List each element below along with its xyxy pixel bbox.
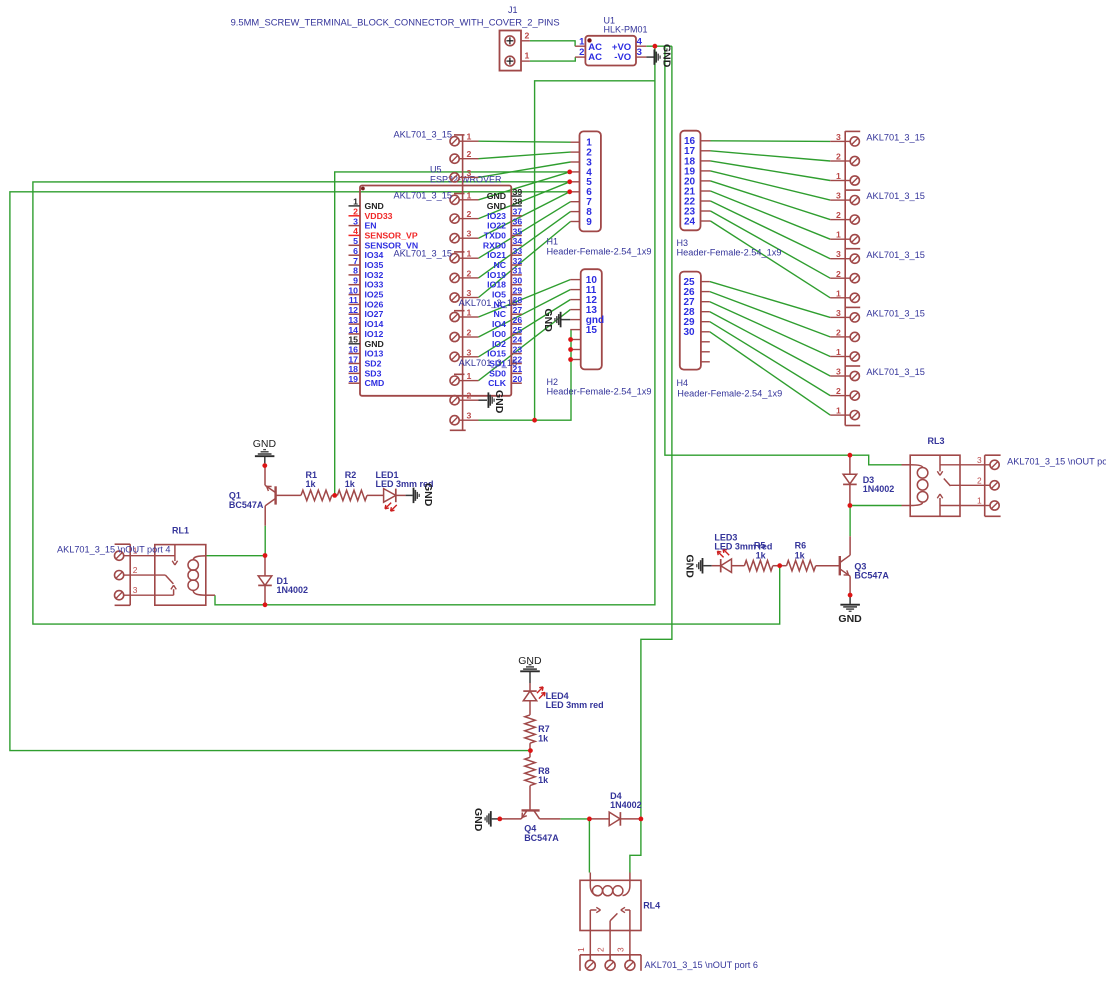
svg-text:AKL701_3_15: AKL701_3_15 <box>394 249 453 259</box>
svg-text:AKL701_3_15: AKL701_3_15 <box>459 298 517 308</box>
wire <box>479 310 571 381</box>
svg-text:9.5MM_SCREW_TERMINAL_BLOCK_CON: 9.5MM_SCREW_TERMINAL_BLOCK_CONNECTOR_WIT… <box>231 17 560 27</box>
transistor Q3 <box>816 536 890 595</box>
svg-text:15: 15 <box>586 325 598 336</box>
svg-text:AKL701_3_15: AKL701_3_15 <box>459 358 517 368</box>
connector AKL701 port6 <box>576 947 758 971</box>
led LED1 <box>367 470 434 511</box>
svg-text:14: 14 <box>348 325 358 335</box>
wire <box>588 819 590 873</box>
relay RL1 <box>130 525 215 605</box>
wire <box>849 506 851 537</box>
svg-text:GND: GND <box>365 201 384 211</box>
wire <box>479 300 571 357</box>
svg-text:18: 18 <box>348 364 358 374</box>
svg-text:1: 1 <box>467 249 472 259</box>
svg-text:12: 12 <box>348 305 358 315</box>
connector AKL701 port4 <box>57 544 171 605</box>
svg-text:2: 2 <box>467 328 472 338</box>
wire <box>711 221 831 298</box>
svg-text:2: 2 <box>836 210 841 220</box>
svg-text:2: 2 <box>977 475 982 485</box>
junction <box>567 170 572 175</box>
svg-text:J1: J1 <box>508 5 518 15</box>
wire <box>710 302 830 357</box>
svg-text:3: 3 <box>467 168 472 178</box>
svg-text:4: 4 <box>637 36 643 47</box>
svg-text:AKL701_3_15 \nOUT port 5: AKL701_3_15 \nOUT port 5 <box>1007 457 1106 467</box>
svg-text:2: 2 <box>353 207 358 217</box>
svg-text:EN: EN <box>365 221 377 231</box>
svg-text:5: 5 <box>353 236 358 246</box>
wire <box>479 182 570 219</box>
wire <box>711 191 831 239</box>
transistor Q4 <box>500 810 561 842</box>
svg-text:6: 6 <box>353 246 358 256</box>
svg-text:1: 1 <box>836 288 841 298</box>
svg-text:IO19: IO19 <box>487 270 506 280</box>
wire <box>479 152 571 159</box>
svg-text:RL3: RL3 <box>928 436 945 446</box>
svg-text:3: 3 <box>637 47 642 58</box>
svg-text:IO25: IO25 <box>365 290 384 300</box>
connector column AKL701_3_15 (right) <box>830 131 925 425</box>
svg-text:26: 26 <box>513 315 523 325</box>
svg-text:1: 1 <box>467 308 472 318</box>
relay RL3 <box>902 436 985 516</box>
relay RL4 <box>580 873 660 961</box>
wire <box>711 181 831 220</box>
svg-text:37: 37 <box>513 207 523 217</box>
svg-text:1: 1 <box>467 132 472 142</box>
svg-text:BC547A: BC547A <box>854 571 889 581</box>
svg-text:2: 2 <box>467 268 472 278</box>
junction <box>532 418 537 423</box>
svg-text:3: 3 <box>467 288 472 298</box>
wire <box>711 171 831 200</box>
svg-text:GND: GND <box>542 309 554 333</box>
wire <box>535 81 655 420</box>
svg-text:AC: AC <box>588 52 602 63</box>
svg-text:VDD33: VDD33 <box>365 211 393 221</box>
diode D1 <box>258 556 308 605</box>
wire <box>711 151 831 161</box>
ground <box>542 309 570 333</box>
resistor R6 <box>780 541 816 571</box>
wire <box>710 282 830 318</box>
svg-text:H4: H4 <box>677 378 689 388</box>
svg-text:8: 8 <box>353 266 358 276</box>
diode D4 <box>589 791 641 826</box>
svg-text:39: 39 <box>513 187 523 197</box>
junction <box>653 44 658 49</box>
svg-text:IO13: IO13 <box>365 349 384 359</box>
svg-text:1: 1 <box>579 36 585 47</box>
svg-text:1: 1 <box>576 947 586 952</box>
wire <box>479 172 570 200</box>
svg-text:IO33: IO33 <box>365 280 384 290</box>
ground <box>838 595 862 625</box>
svg-text:24: 24 <box>513 335 523 345</box>
svg-text:3: 3 <box>836 367 841 377</box>
svg-text:RL4: RL4 <box>643 900 660 910</box>
svg-text:R6: R6 <box>795 541 807 551</box>
svg-text:TXD0: TXD0 <box>484 231 506 241</box>
wire <box>215 46 655 605</box>
svg-text:NC: NC <box>493 260 506 270</box>
junction <box>568 337 573 342</box>
svg-text:IO0: IO0 <box>492 329 506 339</box>
svg-text:R5: R5 <box>754 541 766 551</box>
svg-text:30: 30 <box>684 327 696 338</box>
svg-text:RL1: RL1 <box>172 525 189 535</box>
ground <box>479 390 506 414</box>
svg-text:Header-Female-2.54_1x9: Header-Female-2.54_1x9 <box>677 389 782 399</box>
wire <box>479 202 571 259</box>
svg-text:2: 2 <box>133 565 138 575</box>
wire <box>560 818 589 820</box>
junction <box>848 453 853 458</box>
svg-text:11: 11 <box>349 295 358 305</box>
svg-text:NC: NC <box>493 309 506 319</box>
svg-text:3: 3 <box>836 191 841 201</box>
svg-text:GND: GND <box>487 201 506 211</box>
svg-text:17: 17 <box>348 354 358 364</box>
svg-text:H2: H2 <box>547 377 559 387</box>
wire <box>641 46 672 819</box>
svg-text:1: 1 <box>836 406 841 416</box>
svg-text:IO2: IO2 <box>492 339 506 349</box>
svg-text:9: 9 <box>353 276 358 286</box>
wire <box>479 192 570 238</box>
wire <box>646 45 672 47</box>
svg-text:GND: GND <box>422 483 434 507</box>
svg-text:1k: 1k <box>538 775 549 785</box>
svg-text:1k: 1k <box>345 479 356 489</box>
svg-text:GND: GND <box>472 808 484 832</box>
junction <box>848 503 853 508</box>
svg-text:29: 29 <box>513 285 523 295</box>
svg-text:AKL701_3_15 \nOUT port 6: AKL701_3_15 \nOUT port 6 <box>645 960 759 970</box>
svg-text:1k: 1k <box>306 479 317 489</box>
wire <box>479 141 571 142</box>
svg-text:GND: GND <box>493 390 505 414</box>
svg-text:31: 31 <box>513 266 523 276</box>
svg-text:25: 25 <box>513 325 523 335</box>
svg-text:16: 16 <box>348 344 358 354</box>
svg-text:Header-Female-2.54_1x9: Header-Female-2.54_1x9 <box>547 247 652 257</box>
svg-text:GND: GND <box>838 613 862 625</box>
ground <box>406 483 434 507</box>
wire <box>850 455 902 465</box>
svg-text:9: 9 <box>586 217 592 228</box>
svg-text:BC547A: BC547A <box>229 500 264 510</box>
svg-text:HLK-PM01: HLK-PM01 <box>604 25 648 35</box>
svg-text:2: 2 <box>467 149 472 159</box>
led LED4 <box>523 683 603 715</box>
svg-text:IO27: IO27 <box>365 309 384 319</box>
power module U1 <box>575 15 647 65</box>
junction <box>639 817 644 822</box>
svg-text:AKL701_3_15: AKL701_3_15 <box>866 309 925 319</box>
svg-text:1: 1 <box>836 347 841 357</box>
wire <box>630 819 641 873</box>
header H4 <box>677 272 783 399</box>
ground <box>646 44 672 68</box>
header H1 <box>547 131 652 256</box>
junction <box>777 563 782 568</box>
svg-text:3: 3 <box>836 308 841 318</box>
svg-text:GND: GND <box>487 191 506 201</box>
svg-text:36: 36 <box>513 216 523 226</box>
svg-text:IO34: IO34 <box>365 250 384 260</box>
svg-text:IO22: IO22 <box>487 221 506 231</box>
wire <box>479 280 571 317</box>
svg-text:1N4002: 1N4002 <box>277 585 309 595</box>
svg-text:LED 3mm red: LED 3mm red <box>546 700 604 710</box>
wire <box>710 292 830 337</box>
svg-text:1: 1 <box>836 171 841 181</box>
wire <box>10 192 570 751</box>
wire <box>206 555 265 557</box>
junction <box>262 463 267 468</box>
svg-text:33: 33 <box>513 246 523 256</box>
wire <box>479 162 571 177</box>
ground <box>683 555 712 579</box>
svg-text:AKL701_3_15: AKL701_3_15 <box>866 250 925 260</box>
junction <box>587 817 592 822</box>
ground <box>518 655 542 683</box>
wire <box>711 140 831 143</box>
resistor R7 <box>525 715 550 751</box>
wire <box>33 182 780 624</box>
svg-text:GND: GND <box>253 438 277 450</box>
wire <box>479 290 571 337</box>
connector AKL701 port5 <box>977 455 1106 517</box>
header H3 <box>677 131 782 258</box>
connector J1 <box>231 5 560 70</box>
junction <box>568 347 573 352</box>
wire <box>711 161 831 181</box>
svg-text:1k: 1k <box>538 733 549 743</box>
wire <box>710 322 830 396</box>
junction <box>567 179 572 184</box>
wire <box>711 211 831 278</box>
svg-text:38: 38 <box>513 197 523 207</box>
svg-text:AKL701_3_15: AKL701_3_15 <box>394 191 453 201</box>
resistor R5 <box>744 541 779 571</box>
wire <box>479 222 571 298</box>
junction <box>528 748 533 753</box>
svg-text:2: 2 <box>836 269 841 279</box>
svg-text:19: 19 <box>348 374 358 384</box>
svg-text:4: 4 <box>353 226 358 236</box>
svg-text:AKL701_3_15: AKL701_3_15 <box>394 129 453 139</box>
svg-text:3: 3 <box>467 411 472 421</box>
svg-text:1: 1 <box>836 230 841 240</box>
svg-text:3: 3 <box>615 947 625 952</box>
svg-text:IO32: IO32 <box>365 270 384 280</box>
svg-text:3: 3 <box>467 229 472 239</box>
svg-text:1: 1 <box>525 51 530 61</box>
junction <box>497 817 502 822</box>
svg-text:2: 2 <box>467 209 472 219</box>
svg-text:1: 1 <box>353 197 358 207</box>
junction <box>332 493 337 498</box>
svg-text:CLK: CLK <box>488 378 507 388</box>
svg-text:IO12: IO12 <box>365 329 384 339</box>
svg-text:GND: GND <box>660 44 672 68</box>
svg-text:1: 1 <box>467 190 472 200</box>
resistor R8 <box>525 751 550 811</box>
svg-text:H1: H1 <box>547 236 559 246</box>
svg-text:30: 30 <box>513 276 523 286</box>
svg-text:3: 3 <box>836 249 841 259</box>
svg-text:2: 2 <box>596 947 606 952</box>
wire <box>479 212 571 278</box>
svg-text:IO21: IO21 <box>487 250 506 260</box>
svg-text:CMD: CMD <box>365 378 385 388</box>
svg-text:AKL701_3_15: AKL701_3_15 <box>866 191 925 201</box>
svg-text:1k: 1k <box>756 550 767 560</box>
svg-text:24: 24 <box>684 216 696 227</box>
svg-text:13: 13 <box>348 315 358 325</box>
wire <box>479 330 572 421</box>
wire <box>335 172 570 496</box>
resistor R2 <box>335 470 367 500</box>
svg-text:H3: H3 <box>677 238 689 248</box>
svg-text:SENSOR_VP: SENSOR_VP <box>365 230 418 240</box>
svg-text:3: 3 <box>467 347 472 357</box>
ground <box>253 438 277 463</box>
svg-text:Header-Female-2.54_1x9: Header-Female-2.54_1x9 <box>677 248 782 258</box>
svg-text:1N4002: 1N4002 <box>863 484 895 494</box>
svg-text:GND: GND <box>365 339 384 349</box>
svg-text:U5: U5 <box>430 165 442 175</box>
wire <box>665 46 850 455</box>
svg-text:1k: 1k <box>795 550 806 560</box>
diode D3 <box>843 455 894 505</box>
svg-text:IO4: IO4 <box>492 319 506 329</box>
header H2 <box>547 269 652 397</box>
svg-text:20: 20 <box>513 374 523 384</box>
svg-text:1: 1 <box>977 496 982 506</box>
junction <box>848 593 853 598</box>
led LED3 <box>712 532 773 572</box>
svg-text:AKL701_3_15 \nOUT port 4: AKL701_3_15 \nOUT port 4 <box>57 545 171 555</box>
svg-text:AKL701_3_15: AKL701_3_15 <box>866 133 925 143</box>
svg-text:Header-Female-2.54_1x9: Header-Female-2.54_1x9 <box>547 387 652 397</box>
svg-text:2: 2 <box>836 327 841 337</box>
svg-text:15: 15 <box>348 335 358 345</box>
svg-text:3: 3 <box>133 585 138 595</box>
wire <box>850 505 902 507</box>
svg-text:7: 7 <box>353 256 358 266</box>
svg-text:SD0: SD0 <box>489 368 506 378</box>
wire <box>530 41 575 46</box>
svg-text:2: 2 <box>467 391 472 401</box>
svg-text:IO18: IO18 <box>487 280 506 290</box>
junction <box>568 357 573 362</box>
svg-text:10: 10 <box>348 285 358 295</box>
svg-text:SD2: SD2 <box>365 359 382 369</box>
svg-text:3: 3 <box>836 132 841 142</box>
wire <box>710 312 830 376</box>
svg-text:2: 2 <box>836 152 841 162</box>
svg-text:IO35: IO35 <box>365 260 384 270</box>
svg-text:32: 32 <box>513 256 523 266</box>
svg-text:IO26: IO26 <box>365 299 384 309</box>
ground <box>472 808 500 832</box>
connector column AKL701_3_15 (middle) <box>394 129 518 430</box>
svg-text:23: 23 <box>513 344 523 354</box>
svg-text:34: 34 <box>513 236 523 246</box>
resistor R1 <box>301 470 335 500</box>
svg-text:35: 35 <box>513 226 523 236</box>
svg-text:IO23: IO23 <box>487 211 506 221</box>
svg-text:2: 2 <box>525 30 530 40</box>
svg-text:-VO: -VO <box>614 52 631 63</box>
svg-text:2: 2 <box>579 47 584 58</box>
svg-text:GND: GND <box>683 555 695 579</box>
svg-text:1N4002: 1N4002 <box>610 800 642 810</box>
svg-text:RXD0: RXD0 <box>483 240 506 250</box>
junction <box>567 189 572 194</box>
junction <box>263 553 268 558</box>
svg-text:IO15: IO15 <box>487 349 506 359</box>
svg-text:IO14: IO14 <box>365 319 384 329</box>
ic U5 ESP32-WROVER <box>348 165 522 396</box>
wire <box>530 57 575 61</box>
svg-text:BC547A: BC547A <box>524 833 559 843</box>
wire <box>711 201 831 259</box>
svg-text:1: 1 <box>467 371 472 381</box>
junction <box>263 602 268 607</box>
wire <box>710 332 830 415</box>
svg-text:AKL701_3_15: AKL701_3_15 <box>866 367 925 377</box>
svg-text:2: 2 <box>836 386 841 396</box>
svg-text:SD3: SD3 <box>365 368 382 378</box>
svg-text:3: 3 <box>977 455 982 465</box>
wire <box>264 526 266 556</box>
svg-text:3: 3 <box>353 216 358 226</box>
transistor Q1 <box>229 466 301 526</box>
